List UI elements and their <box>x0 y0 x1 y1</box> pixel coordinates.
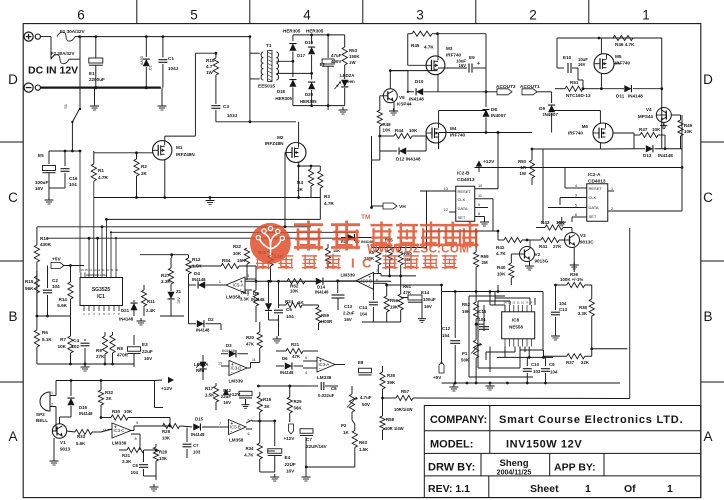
diode D14 IN4148 <box>305 280 315 282</box>
svg-text:SET: SET <box>458 215 466 220</box>
diode D16 IN4148 <box>70 381 72 397</box>
ground below V5 <box>393 103 395 113</box>
svg-text:LM339: LM339 <box>317 375 332 380</box>
diode D9 IN4007 <box>537 91 552 93</box>
resistor R58 10R 1/4W <box>382 398 384 416</box>
diode D3 IN4148 <box>221 353 228 355</box>
capacitor C16 104 <box>64 151 66 166</box>
svg-text:4: 4 <box>98 312 100 316</box>
svg-text:M5: M5 <box>615 54 622 59</box>
diode D6 IN4148 <box>276 365 284 367</box>
wire C3 to M2 drain <box>216 121 296 123</box>
svg-text:D20: D20 <box>305 92 314 97</box>
svg-text:C12: C12 <box>442 326 451 331</box>
svg-text:102: 102 <box>71 344 79 349</box>
resistor R37 22K <box>544 355 567 357</box>
diode D18 HER305 <box>292 61 294 77</box>
svg-text:12: 12 <box>97 268 101 272</box>
svg-text:1W: 1W <box>349 60 356 65</box>
diode D2 IN4148 <box>189 323 197 325</box>
svg-text:R45: R45 <box>411 43 420 48</box>
svg-text:M4: M4 <box>450 126 457 131</box>
label VH flag <box>383 203 397 209</box>
resistor R12 1.5K <box>186 258 191 274</box>
terminal - input <box>24 83 33 92</box>
diode D8 IN4007 <box>485 92 487 107</box>
wire 386 node rail <box>259 385 307 387</box>
transistor V5 KSP44 <box>383 89 397 103</box>
wire R27 R12 link <box>140 254 189 256</box>
svg-text:D: D <box>8 72 18 87</box>
svg-text:C7: C7 <box>193 443 199 448</box>
svg-text:1R: 1R <box>520 165 526 170</box>
svg-text:990999914-93a: 990999914-93a <box>86 273 107 277</box>
svg-text:R59: R59 <box>321 313 330 318</box>
svg-text:R13: R13 <box>241 290 250 295</box>
svg-text:C10: C10 <box>531 362 540 367</box>
capacitor C14 104 <box>372 285 374 300</box>
svg-text:MPS44: MPS44 <box>638 114 654 119</box>
svg-text:16V: 16V <box>35 186 44 191</box>
svg-text:R54: R54 <box>222 258 231 263</box>
svg-text:14: 14 <box>103 429 107 433</box>
svg-text:APP BY:: APP BY: <box>554 462 596 474</box>
MOSFET M6 IRF740 <box>593 123 613 143</box>
svg-text:D2: D2 <box>208 317 214 322</box>
svg-text:3K: 3K <box>264 404 270 409</box>
svg-text:2K: 2K <box>106 396 112 401</box>
IC2-A CD4013 <box>587 184 608 222</box>
opamp IC3-C LM339 <box>112 423 131 438</box>
svg-text:P1: P1 <box>462 351 468 356</box>
svg-text:V5: V5 <box>399 95 405 100</box>
resistor R2 2K <box>136 153 138 159</box>
wire M1 gate <box>94 152 153 154</box>
svg-text:D9: D9 <box>539 106 545 111</box>
wire M6 to R47 <box>600 148 634 150</box>
ground below E14 <box>421 300 423 316</box>
label +5V bottom flag <box>439 362 444 373</box>
svg-text:DC IN 12V: DC IN 12V <box>28 65 78 77</box>
svg-text:IC2-A: IC2-A <box>588 172 601 178</box>
svg-text:IN4148: IN4148 <box>315 290 329 295</box>
svg-text:R21: R21 <box>291 342 300 347</box>
svg-text:10: 10 <box>106 268 110 272</box>
svg-text:P2: P2 <box>341 423 347 428</box>
svg-text:IN4007: IN4007 <box>543 112 558 117</box>
svg-text:11: 11 <box>102 268 105 272</box>
svg-text:C16: C16 <box>69 176 78 181</box>
ground on source rail <box>209 198 211 201</box>
svg-text:C9: C9 <box>549 362 555 367</box>
svg-text:LM339: LM339 <box>341 273 356 278</box>
potentiometer P2 1K <box>349 394 354 412</box>
resistor R30 10K <box>101 417 111 419</box>
resistor R34 4.7K <box>259 421 261 443</box>
svg-text:104: 104 <box>360 312 368 317</box>
svg-text:B: B <box>8 309 17 324</box>
svg-text:NTC16D-13: NTC16D-13 <box>566 93 591 98</box>
svg-text:D1: D1 <box>149 65 153 70</box>
capacitor E4 22UF 16V <box>267 450 275 452</box>
wire M2 gate riser <box>285 152 286 154</box>
svg-text:R69: R69 <box>481 254 490 259</box>
svg-text:7: 7 <box>376 269 378 273</box>
svg-text:IN4148: IN4148 <box>409 97 424 102</box>
svg-text:D19: D19 <box>305 40 314 45</box>
svg-text:12: 12 <box>444 208 448 212</box>
wire source rail <box>94 197 320 199</box>
svg-text:R14: R14 <box>59 297 68 302</box>
wire NE556 maze outer loop <box>468 296 470 377</box>
svg-text:4.7K: 4.7K <box>244 453 254 458</box>
svg-text:16V: 16V <box>144 356 153 361</box>
diode D21 IN4148 <box>133 300 135 302</box>
svg-text:A: A <box>8 429 17 444</box>
svg-text:10K: 10K <box>333 249 340 253</box>
watermark char wang <box>462 224 479 226</box>
svg-text:SET: SET <box>589 214 597 219</box>
svg-text:9: 9 <box>111 268 113 272</box>
svg-text:R24: R24 <box>285 299 294 304</box>
svg-text:16: 16 <box>81 268 85 272</box>
svg-text:1: 1 <box>642 8 650 23</box>
svg-text:3: 3 <box>93 312 95 316</box>
svg-text:3.3K: 3.3K <box>122 459 132 464</box>
ground bottom rail <box>489 383 491 386</box>
wire R45 to M3 drain rail <box>438 33 487 35</box>
svg-text:104: 104 <box>69 182 77 187</box>
resistor R52 19K <box>475 292 477 303</box>
svg-text:104: 104 <box>550 370 558 375</box>
vertical line right of NE556 <box>629 228 631 399</box>
resistor R43 10K <box>536 227 545 229</box>
svg-text:13: 13 <box>218 362 222 366</box>
svg-text:10K: 10K <box>233 251 242 256</box>
ground below C1 D1 <box>161 88 163 103</box>
svg-text:DATA: DATA <box>458 206 468 211</box>
resistor R23 5.1K <box>268 250 273 266</box>
svg-text:DATA: DATA <box>589 205 599 210</box>
wire ACOUT2 column <box>485 34 487 92</box>
svg-text:SG3525: SG3525 <box>92 287 111 293</box>
svg-text:I: I <box>351 256 355 271</box>
wire NE556 risers right <box>534 298 536 305</box>
svg-text:10K: 10K <box>162 436 171 441</box>
svg-text:R22: R22 <box>233 244 242 249</box>
svg-text:D21: D21 <box>121 308 130 313</box>
wire HV- rail <box>293 105 345 107</box>
svg-text:D12 IN4148: D12 IN4148 <box>396 157 421 162</box>
resistor R17 1.5K <box>215 383 217 386</box>
svg-text:R57: R57 <box>401 389 410 394</box>
svg-text:2.4K: 2.4K <box>146 308 156 313</box>
svg-text:LED1A: LED1A <box>194 362 209 367</box>
svg-text:+12V: +12V <box>161 386 173 392</box>
resistor R4 2K <box>310 166 312 169</box>
resistor R69 2M <box>475 231 477 252</box>
wire right column <box>661 38 663 149</box>
svg-text:E4: E4 <box>285 455 291 460</box>
svg-text:4.7R: 4.7R <box>324 201 334 206</box>
resistor R29 10K <box>163 423 180 428</box>
svg-text:R32: R32 <box>105 390 114 395</box>
svg-text:10K: 10K <box>159 456 168 461</box>
svg-text:39K: 39K <box>387 380 396 385</box>
svg-text:E10: E10 <box>563 55 572 60</box>
SG3525 top pin stubs <box>80 273 82 278</box>
wire row 231 <box>427 230 499 232</box>
opamp IC5-A LM358 <box>226 277 245 293</box>
svg-text:BELL: BELL <box>36 418 48 423</box>
svg-text:Red: Red <box>196 368 205 373</box>
resistor R15b 10K <box>325 248 330 264</box>
wire R36 node <box>573 264 575 272</box>
svg-text:103: 103 <box>193 450 201 455</box>
svg-text:8: 8 <box>531 301 533 305</box>
svg-text:1: 1 <box>83 312 85 316</box>
resistor R47 10K <box>634 134 640 136</box>
svg-text:22K: 22K <box>581 360 590 365</box>
svg-text:10R/1/4W: 10R/1/4W <box>394 407 413 412</box>
opamp IC5-B LM358 <box>229 420 247 435</box>
wire main positive rail <box>75 36 250 38</box>
svg-text:E3: E3 <box>142 342 148 347</box>
svg-text:LED2A: LED2A <box>340 73 355 78</box>
ground below V4 <box>663 123 665 127</box>
svg-text:27K: 27K <box>96 354 105 359</box>
ground bottom left <box>153 484 155 487</box>
svg-text:+: + <box>369 275 372 280</box>
svg-text:D6: D6 <box>282 356 288 361</box>
svg-text:+: + <box>114 424 117 429</box>
wire ground rail 364 <box>37 363 134 365</box>
svg-text:C: C <box>703 190 713 205</box>
capacitor C10 103 <box>526 357 528 366</box>
svg-text:4: 4 <box>305 371 307 375</box>
svg-text:E5: E5 <box>38 153 44 158</box>
resistor R57 10R <box>383 397 397 399</box>
wire R4 R3 top tie <box>299 165 321 167</box>
svg-text:CLK: CLK <box>589 195 597 200</box>
resistor R16 430K <box>36 227 38 245</box>
svg-text:M1: M1 <box>176 145 183 150</box>
wire bus between flip flops <box>542 149 544 224</box>
svg-text:104: 104 <box>559 301 567 306</box>
svg-text:E9: E9 <box>469 55 475 60</box>
svg-text:6: 6 <box>77 8 85 23</box>
svg-text:R7: R7 <box>60 337 66 342</box>
NE556 top pins <box>504 305 506 312</box>
svg-text:8: 8 <box>118 312 120 316</box>
svg-text:0.022uF: 0.022uF <box>318 393 335 398</box>
svg-text:14: 14 <box>89 268 93 272</box>
svg-text:IN4148: IN4148 <box>119 317 134 322</box>
capacitor E8 4.7uF 50V <box>359 368 372 373</box>
ground below V2 <box>529 262 531 267</box>
capacitor C4 102 <box>84 339 86 341</box>
svg-text:D4: D4 <box>194 271 200 276</box>
wire node row 316 <box>37 315 71 317</box>
resistor R49 10K <box>680 115 682 120</box>
svg-text:3.3K: 3.3K <box>240 297 250 302</box>
resistor R35 39K <box>382 366 384 372</box>
svg-text:1.5K: 1.5K <box>205 393 215 398</box>
diode D12 IN4148 <box>379 136 381 151</box>
diode D17 HER305 <box>292 35 294 41</box>
resistor R38 3.3K <box>591 285 593 299</box>
svg-text:RESET: RESET <box>458 189 472 194</box>
svg-text:VH: VH <box>399 204 406 210</box>
svg-text:IC1: IC1 <box>97 294 105 300</box>
capacitor E9 10uF 16V <box>438 67 467 69</box>
svg-text:Sheet: Sheet <box>530 483 559 495</box>
svg-text:3.3K: 3.3K <box>161 279 171 284</box>
svg-text:IN4148: IN4148 <box>628 94 643 99</box>
zener Z1 15V <box>167 292 174 299</box>
svg-text:2: 2 <box>611 207 613 211</box>
svg-text:R44: R44 <box>395 128 404 133</box>
diode D5 IN4148 <box>268 281 270 303</box>
svg-text:E2: E2 <box>320 62 326 67</box>
wire bottom interconnect <box>144 475 157 477</box>
svg-text:REV: 1.1: REV: 1.1 <box>428 483 470 495</box>
svg-text:16V: 16V <box>344 317 352 322</box>
svg-text:IRFZ48N: IRFZ48N <box>176 152 195 157</box>
svg-text:V4: V4 <box>646 107 652 112</box>
svg-text:C7: C7 <box>306 437 312 442</box>
svg-text:10: 10 <box>478 184 482 188</box>
svg-text:R58: R58 <box>386 417 395 422</box>
svg-text:R41: R41 <box>539 244 548 249</box>
svg-text:R11: R11 <box>147 299 155 304</box>
capacitor C5 104 <box>278 281 280 308</box>
svg-text:V3: V3 <box>580 233 586 238</box>
resistor R33 5.6K <box>67 431 75 432</box>
svg-text:R19: R19 <box>263 397 272 402</box>
wire top rail right section <box>557 37 662 39</box>
wire V5 collector up <box>389 71 391 89</box>
svg-text:HER305: HER305 <box>306 29 324 34</box>
wire riser VH column <box>441 285 443 364</box>
resistor R55 10K <box>387 245 392 260</box>
wire primary taps <box>250 52 260 54</box>
svg-text:CLK: CLK <box>458 197 466 202</box>
transistor V4 MPS44 <box>656 108 671 123</box>
capacitor E2 47uF 400V <box>327 35 329 58</box>
ground below C13n <box>555 333 557 336</box>
svg-text:TM: TM <box>361 214 370 221</box>
svg-text:CD4013: CD4013 <box>457 177 475 183</box>
wire IC2-B RESET route <box>420 190 449 192</box>
ground NE556 left <box>453 383 455 386</box>
capacitor E3 22uF 16V <box>133 335 135 345</box>
resistor R14 5.6K <box>70 266 72 283</box>
capacitor E1 2200uF <box>95 37 97 58</box>
svg-text:R1: R1 <box>98 168 104 173</box>
svg-text:INV150W 12V: INV150W 12V <box>506 439 582 451</box>
wire M3 gate <box>408 64 426 66</box>
watermark char dian <box>371 224 393 226</box>
svg-text:R31: R31 <box>122 453 131 458</box>
svg-text:4.7R: 4.7R <box>98 175 108 180</box>
svg-text:C: C <box>362 256 372 271</box>
svg-text:R30: R30 <box>112 409 121 414</box>
wire M5 drain <box>600 38 602 54</box>
svg-text:8: 8 <box>135 437 137 441</box>
svg-text:16V: 16V <box>424 304 432 309</box>
resistor R45 4.7K <box>408 33 412 35</box>
wire bus line A <box>107 218 321 220</box>
svg-text:R51: R51 <box>570 80 579 85</box>
svg-text:D11: D11 <box>616 94 625 99</box>
svg-text:16V: 16V <box>286 469 295 474</box>
svg-text:EE5015: EE5015 <box>258 84 275 90</box>
svg-text:R3: R3 <box>324 194 330 199</box>
svg-text:1K: 1K <box>343 430 349 435</box>
svg-text:R53: R53 <box>349 48 358 53</box>
svg-text:D13: D13 <box>643 153 652 158</box>
resistor R3 4.7R <box>319 166 321 171</box>
diode D11 IN4148 <box>620 88 624 90</box>
wire gate drive <box>390 70 437 72</box>
resistor R11 2.4K <box>143 285 145 290</box>
svg-text:R33: R33 <box>77 434 86 439</box>
svg-text:22uF: 22uF <box>142 349 153 354</box>
svg-text:A: A <box>703 429 712 444</box>
svg-text:4.7: 4.7 <box>206 64 213 69</box>
resistor R15 56K <box>36 271 38 276</box>
capacitor C1 104J <box>162 37 164 58</box>
svg-text:6A05: 6A05 <box>140 56 144 65</box>
opamp IC3-D LM339 <box>229 361 247 376</box>
svg-text:LM358: LM358 <box>226 295 241 300</box>
svg-text:R38: R38 <box>579 305 588 310</box>
svg-text:R27: R27 <box>161 273 170 278</box>
svg-text:Of: Of <box>624 483 636 495</box>
resistor R42 4.7K <box>498 239 504 241</box>
svg-text:1: 1 <box>611 187 613 191</box>
svg-text:R56: R56 <box>390 298 399 303</box>
svg-text:R25: R25 <box>294 399 303 404</box>
svg-text:IN4148: IN4148 <box>222 348 236 353</box>
resistor R20 47K <box>259 322 261 332</box>
svg-text:V1: V1 <box>60 440 66 445</box>
svg-text:3.3K: 3.3K <box>578 311 588 316</box>
svg-text:13: 13 <box>444 187 448 191</box>
svg-text:R50: R50 <box>518 159 527 164</box>
capacitor E14 100uF 16V <box>408 295 422 300</box>
svg-text:IRFZ48N: IRFZ48N <box>265 141 284 146</box>
svg-text:M2: M2 <box>277 135 284 140</box>
svg-text:R6: R6 <box>42 330 48 335</box>
svg-text:C13: C13 <box>559 307 568 312</box>
svg-text:C14: C14 <box>359 305 368 310</box>
svg-text:2K: 2K <box>141 171 148 176</box>
svg-text:F2 30A/32V: F2 30A/32V <box>51 51 75 56</box>
capacitor C9 104 <box>545 357 547 366</box>
wire comparator node 281 <box>255 279 257 281</box>
svg-text:10K: 10K <box>497 272 506 277</box>
svg-text:10K: 10K <box>556 220 565 225</box>
resistor R31 3.3K <box>119 449 127 451</box>
svg-text:47uF: 47uF <box>331 53 342 58</box>
right margin zone dividers <box>701 141 724 143</box>
resistor R53 150K 1W <box>344 35 346 47</box>
wire secondary taps <box>276 60 293 62</box>
resistor R1 4.7R <box>93 151 95 164</box>
svg-text:R63: R63 <box>359 440 368 445</box>
